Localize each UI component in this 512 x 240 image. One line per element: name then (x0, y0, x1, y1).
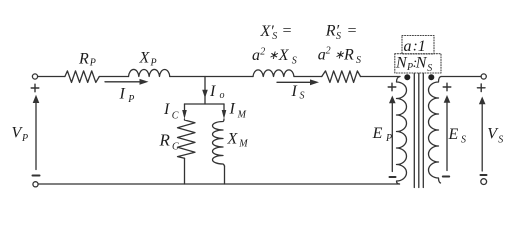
plus sign E_P (388, 83, 396, 91)
resistor R'_S (322, 71, 361, 83)
svg-text:a: a (318, 47, 326, 64)
plus sign V_P (31, 84, 39, 92)
label box N_P:N_S (395, 54, 441, 74)
voltage arrow E_P (389, 96, 396, 172)
svg-text:I: I (119, 86, 126, 103)
svg-text:R: R (159, 131, 171, 150)
svg-text:M: M (238, 139, 248, 150)
svg-text:2: 2 (326, 46, 331, 57)
label R_C (159, 131, 180, 153)
svg-text:E: E (448, 126, 459, 143)
inductor X_P (129, 69, 170, 76)
wire R'_S to transformer primary (361, 76, 401, 78)
svg-text:C: C (172, 111, 179, 122)
svg-text:X: X (278, 47, 290, 64)
label R'_S = (325, 23, 357, 42)
label a^2 * R_S (318, 46, 361, 67)
minus sign E_P (390, 176, 396, 178)
resistor R_C (178, 119, 196, 158)
wire X_M to bottom (224, 166, 226, 184)
label I_C (163, 101, 179, 122)
wire shunt top bar (185, 103, 225, 105)
terminal primary bottom-left (33, 182, 38, 187)
svg-text:I: I (163, 101, 170, 118)
label V_S (487, 126, 503, 146)
current arrow I_S (277, 79, 319, 85)
svg-text:P: P (385, 133, 392, 144)
svg-text:P: P (150, 58, 157, 69)
wire R_C to bottom (184, 158, 186, 184)
terminal secondary top-right (481, 74, 486, 79)
current arrow I_P (105, 79, 149, 85)
minus sign E_S (443, 176, 449, 178)
svg-text:I: I (209, 83, 216, 100)
plus sign V_S (477, 84, 485, 92)
svg-text:a: a (252, 47, 260, 64)
plus sign E_S (443, 83, 451, 91)
svg-text:I: I (291, 83, 298, 100)
label I_M (229, 101, 247, 121)
svg-text:∗: ∗ (268, 48, 278, 62)
svg-text:2: 2 (260, 46, 265, 57)
svg-text:P: P (127, 94, 134, 105)
svg-text:1: 1 (418, 38, 426, 55)
svg-text:=: = (282, 23, 293, 40)
label I_P (119, 86, 135, 106)
resistor R_P (65, 71, 99, 83)
svg-text:P: P (89, 57, 96, 68)
terminal primary top-left (32, 74, 37, 79)
svg-text:M: M (237, 110, 247, 121)
svg-text:S: S (461, 135, 466, 146)
label X'_S = (260, 23, 293, 42)
svg-text:S: S (272, 31, 277, 42)
node shunt branch with current arrow I_o (202, 77, 208, 105)
inductor X_M (213, 119, 225, 166)
transformer secondary winding (429, 77, 441, 184)
wire X_P to node and on to X'_S (170, 76, 253, 78)
label box a:1 (402, 36, 434, 56)
minus sign V_S (481, 174, 487, 176)
svg-text:a: a (404, 38, 412, 55)
svg-text:S: S (498, 135, 503, 146)
polarity dot primary (404, 74, 410, 80)
svg-text:∗: ∗ (334, 48, 344, 62)
transformer primary winding (397, 77, 407, 185)
inductor X'_S (253, 70, 294, 77)
svg-text:S: S (336, 31, 341, 42)
svg-text:E: E (372, 125, 383, 142)
label E_P (372, 125, 393, 144)
label I_S (291, 83, 305, 102)
label E_S (448, 126, 467, 146)
svg-text:S: S (292, 56, 297, 67)
label R_P (78, 51, 96, 69)
svg-text:R: R (343, 47, 354, 64)
current arrow I_C (182, 104, 187, 119)
svg-text:=: = (347, 23, 358, 40)
wire between R_P and X_P (99, 76, 128, 78)
wire X'_S to R'_S (294, 76, 322, 78)
wire top left (38, 76, 65, 78)
wire top right terminal to secondary (441, 76, 481, 78)
transformer core (414, 74, 423, 188)
svg-text:o: o (220, 90, 225, 101)
voltage arrow E_S (444, 95, 451, 171)
label X_M (227, 131, 249, 150)
svg-text:R: R (78, 51, 89, 68)
voltage arrow V_P (33, 95, 40, 170)
svg-text:S: S (356, 55, 361, 66)
svg-text:I: I (229, 101, 236, 118)
label V_P (12, 125, 29, 145)
current arrow I_M (222, 104, 227, 119)
label a^2 * X_S (252, 46, 297, 66)
polarity dot secondary (428, 74, 434, 80)
svg-text:N: N (415, 54, 428, 71)
terminal secondary bottom-right (481, 179, 487, 185)
svg-text:P: P (21, 133, 28, 144)
svg-text:X: X (227, 131, 239, 148)
svg-text:S: S (427, 63, 432, 74)
voltage arrow V_S (479, 97, 486, 172)
wire bottom (38, 183, 399, 185)
label X_P (139, 50, 157, 69)
svg-text:C: C (172, 141, 179, 152)
svg-text:X: X (139, 50, 151, 67)
minus sign V_P (33, 175, 40, 177)
svg-text:S: S (300, 91, 305, 102)
label I_o (209, 83, 225, 101)
